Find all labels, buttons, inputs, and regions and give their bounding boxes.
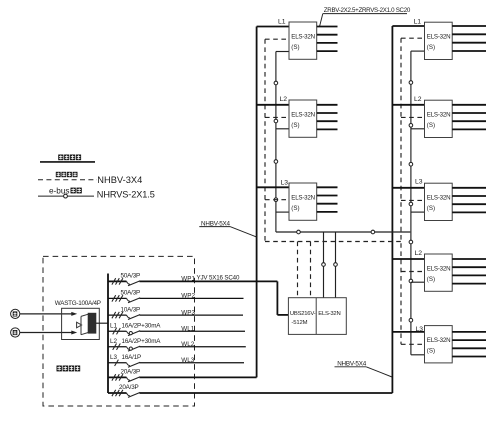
legend sample line: branch power feeder — [40, 161, 95, 163]
wire: dashed battery branch to U-L1b — [401, 37, 425, 39]
legend sample e-bus line with splice circle — [38, 194, 94, 198]
svg-text:L3: L3 — [110, 354, 118, 361]
svg-text:NHBV-3X4: NHBV-3X4 — [97, 175, 142, 185]
circuit label WP2 — [181, 293, 195, 300]
label 20A/3P — [119, 384, 139, 391]
svg-text:ELS-32N: ELS-32N — [427, 266, 451, 273]
breaker QF3 10A/3P — [108, 312, 243, 320]
wires: output circuits of U-L2c — [452, 259, 486, 284]
svg-text:(S): (S) — [427, 276, 435, 283]
label 50A/3P — [121, 290, 141, 297]
wire: e-bus horizontal run between risers — [276, 231, 410, 233]
svg-text:ELS-32N: ELS-32N — [427, 34, 451, 41]
svg-text:ZRBV-2X2.5+ZRRVS-2X1.0 SC20: ZRBV-2X2.5+ZRRVS-2X1.0 SC20 — [324, 7, 411, 14]
svg-text:ELS-32N: ELS-32N — [427, 337, 451, 344]
wire: dashed battery branch to U-L2c — [401, 271, 425, 273]
svg-text:WL1: WL1 — [181, 326, 194, 333]
wire: right riser e-bus — [410, 51, 412, 355]
breaker QF8 20A/3P — [108, 390, 392, 398]
emergency luminaire box U-L2b ELS-32N — [425, 100, 453, 137]
wire: right riser dashed (battery feed) — [400, 38, 402, 344]
wire: e-bus branch to U-L2c — [411, 281, 425, 283]
svg-text:(S): (S) — [291, 122, 299, 129]
emergency luminaire box U-L1a ELS-32N — [289, 22, 317, 59]
fire control room panel dashed enclosure — [43, 256, 195, 406]
svg-text:20A/3P: 20A/3P — [119, 384, 139, 391]
wire: dashed battery branch to U-L2b — [401, 116, 425, 118]
label 10A/3P — [121, 306, 141, 313]
wire: backup source to ATS with arrow — [20, 331, 77, 335]
cable label YJV 5X16 SC40 — [197, 275, 240, 282]
wire: right riser bus NHBV-5X4 — [391, 26, 393, 393]
e-bus splice circles on left riser — [274, 81, 278, 201]
svg-text:NHRVS-2X1.5: NHRVS-2X1.5 — [97, 190, 155, 200]
breaker QF2 50A/3P — [108, 295, 244, 303]
node L2 feeder label — [415, 250, 423, 257]
svg-text:10A/3P: 10A/3P — [121, 306, 141, 313]
legend sample dashed line NHBV-3X4 — [38, 179, 97, 181]
svg-text:(S): (S) — [291, 205, 299, 212]
legend text e-bus总线 — [49, 186, 82, 195]
svg-text:L2: L2 — [414, 96, 422, 103]
wire: feeder to U-L3b — [392, 187, 424, 189]
node L3 feeder label — [281, 179, 289, 186]
wire: e-bus branch to U-L2a — [276, 128, 289, 130]
svg-text:WP2: WP2 — [181, 293, 195, 300]
breaker QF1 50A/3P — [108, 278, 277, 286]
label NHBV-5X4 upper with leader to left riser — [199, 220, 256, 237]
wires: output circuits of U-L1a — [317, 27, 338, 52]
label 50A/3P — [121, 273, 141, 280]
backup source circle 备 — [11, 328, 20, 337]
circuit label WP1 — [181, 276, 195, 283]
legend text 电池电源 (battery power) — [56, 172, 78, 177]
emergency luminaire box U-L2a ELS-32N — [289, 100, 317, 137]
wires: output circuits of U-L3b — [452, 188, 486, 213]
svg-text:ELS-32N: ELS-32N — [291, 112, 315, 119]
wires: output circuits of U-L2b — [452, 105, 486, 130]
svg-text:(S): (S) — [427, 347, 435, 354]
e-bus splice circles on horizontal run — [297, 230, 375, 234]
cable label ZRBV-2X2.5+ZRRVS-2X1.0 SC20 — [320, 7, 411, 26]
svg-text:L1: L1 — [278, 18, 286, 25]
svg-text:WASTG-100A/4P: WASTG-100A/4P — [55, 300, 101, 307]
svg-text:L3: L3 — [281, 179, 289, 186]
node L2 feeder label — [414, 96, 422, 103]
wire: dashed drop to controller (right) — [310, 242, 312, 298]
emergency luminaire box U-L3b ELS-32N — [425, 183, 453, 220]
wire: feeder to U-L1b — [392, 25, 424, 27]
wire: e-bus branch to U-L1a — [276, 51, 289, 53]
svg-text:WL3: WL3 — [181, 357, 194, 364]
breaker QF4 16A/2P+30mA — [108, 328, 245, 336]
wire WP1 feed: panel to controller (via bends) — [277, 281, 288, 315]
wire: dashed horizontal run between risers — [265, 241, 401, 243]
svg-text:L3: L3 — [415, 179, 423, 186]
legend label NHBV-3X4 — [97, 175, 142, 185]
svg-text:(S): (S) — [427, 44, 435, 51]
wire: main source to ATS with arrow — [20, 312, 77, 316]
ATS label WASTG-100A/4P — [55, 300, 101, 307]
wires: output circuits of U-L3a — [317, 187, 338, 212]
wire: e-bus branch to U-L3a — [276, 211, 289, 213]
svg-text:(S): (S) — [427, 122, 435, 129]
wire: dashed battery branch to U-L3c — [401, 343, 425, 345]
wire: e-bus drop to controller (left) with splice — [322, 232, 326, 298]
svg-text:16A/2P+30mA: 16A/2P+30mA — [122, 338, 162, 345]
wire: feeder to U-L3a — [257, 186, 289, 188]
circuit label WL3 — [181, 357, 194, 364]
wire: e-bus branch to U-L2b — [411, 128, 425, 130]
emergency luminaire box U-L3c ELS-32N — [425, 326, 453, 363]
svg-text:L1: L1 — [414, 19, 422, 26]
wire: feeder to U-L2a — [257, 104, 289, 106]
svg-text:WL2: WL2 — [181, 341, 194, 348]
legend title 支线电源 (branch power) — [58, 155, 81, 161]
emergency luminaire box U-L2c ELS-32N — [425, 254, 453, 291]
svg-text:-512M: -512M — [291, 320, 307, 326]
wire: dashed battery branch to U-L3b — [401, 199, 425, 201]
panel room label 消防控制 — [57, 366, 81, 372]
svg-text:(S): (S) — [291, 44, 299, 51]
svg-text:ELS-32N: ELS-32N — [291, 34, 315, 41]
label 16A/2P+30mA — [110, 322, 161, 329]
node L3 feeder label — [415, 179, 423, 186]
wire: dashed drop to controller (left) — [297, 242, 299, 298]
main source circle 主 — [11, 309, 20, 318]
svg-text:16A/2P+30mA: 16A/2P+30mA — [122, 322, 162, 329]
svg-text:ELS-32N: ELS-32N — [427, 112, 451, 119]
ATS transfer switch WASTG-100A/4P — [62, 308, 108, 339]
breaker QF7 20A/3P — [108, 374, 257, 382]
svg-text:L1: L1 — [110, 322, 118, 329]
breaker QF5 16A/2P+30mA — [108, 344, 246, 352]
wire: feeder to U-L1a — [257, 26, 289, 28]
label 16A/2P+30mA — [110, 338, 161, 345]
wires: output circuits of U-L1b — [452, 26, 486, 51]
circuit label WP3 — [181, 309, 195, 316]
e-bus splice circles on right riser — [409, 81, 413, 322]
svg-text:YJV 5X16 SC40: YJV 5X16 SC40 — [197, 275, 240, 282]
svg-text:50A/3P: 50A/3P — [121, 290, 141, 297]
node L2 feeder label — [280, 96, 288, 103]
emergency luminaire box U-L3a ELS-32N — [289, 183, 317, 220]
wire: e-bus branch to U-L3c — [411, 354, 425, 356]
svg-text:ELS-32N: ELS-32N — [318, 311, 340, 317]
legend label NHRVS-2X1.5 — [97, 190, 155, 200]
svg-text:L2: L2 — [110, 338, 118, 345]
wire: feeder to U-L2c — [392, 258, 424, 260]
panel vertical busbar — [107, 274, 109, 394]
wire: feeder to U-L2b — [392, 104, 424, 106]
node L1 feeder label — [414, 19, 422, 26]
emergency luminaire box U-L1b ELS-32N — [425, 22, 453, 59]
wire: dashed battery branch to U-L3a — [265, 199, 289, 201]
circuit label WL2 — [181, 341, 194, 348]
node L3 feeder label — [416, 326, 424, 333]
controller box UBS216V-512M + ELS-32N — [288, 298, 346, 335]
svg-text:ELS-32N: ELS-32N — [291, 195, 315, 202]
svg-text:ELS-32N: ELS-32N — [427, 195, 451, 202]
wire: e-bus drop to controller (right) with splice — [334, 232, 338, 298]
wire: feeder to U-L3c — [392, 331, 424, 333]
svg-text:50A/3P: 50A/3P — [121, 273, 141, 280]
wire: left riser e-bus — [275, 52, 277, 233]
svg-text:L2: L2 — [415, 250, 423, 257]
wires: output circuits of U-L2a — [317, 105, 338, 130]
wire: e-bus branch to U-L3b — [411, 211, 425, 213]
wire: e-bus branch to U-L1b — [411, 50, 425, 52]
svg-text:20A/3P: 20A/3P — [121, 369, 141, 376]
breaker QF6 16A/1P — [108, 360, 244, 368]
node L1 feeder label — [278, 18, 286, 25]
svg-text:UBS216V-: UBS216V- — [290, 311, 316, 317]
wire: left riser bus NHBV-5X4 — [256, 27, 258, 378]
label 20A/3P — [121, 369, 141, 376]
svg-text:16A/1P: 16A/1P — [122, 354, 142, 361]
label NHBV-5X4 lower with leader to right riser — [335, 360, 393, 377]
svg-text:L2: L2 — [280, 96, 288, 103]
svg-text:WP3: WP3 — [181, 309, 195, 316]
wire: left riser dashed (battery feed) — [264, 39, 266, 241]
svg-text:(S): (S) — [427, 205, 435, 212]
circuit label WL1 — [181, 326, 194, 333]
svg-text:WP1: WP1 — [181, 276, 195, 283]
wire: dashed battery branch to U-L2a — [265, 116, 289, 118]
wires: output circuits of U-L3c — [452, 332, 486, 357]
label 16A/1P — [110, 354, 141, 361]
wire: dashed battery branch to U-L1a — [265, 38, 289, 40]
